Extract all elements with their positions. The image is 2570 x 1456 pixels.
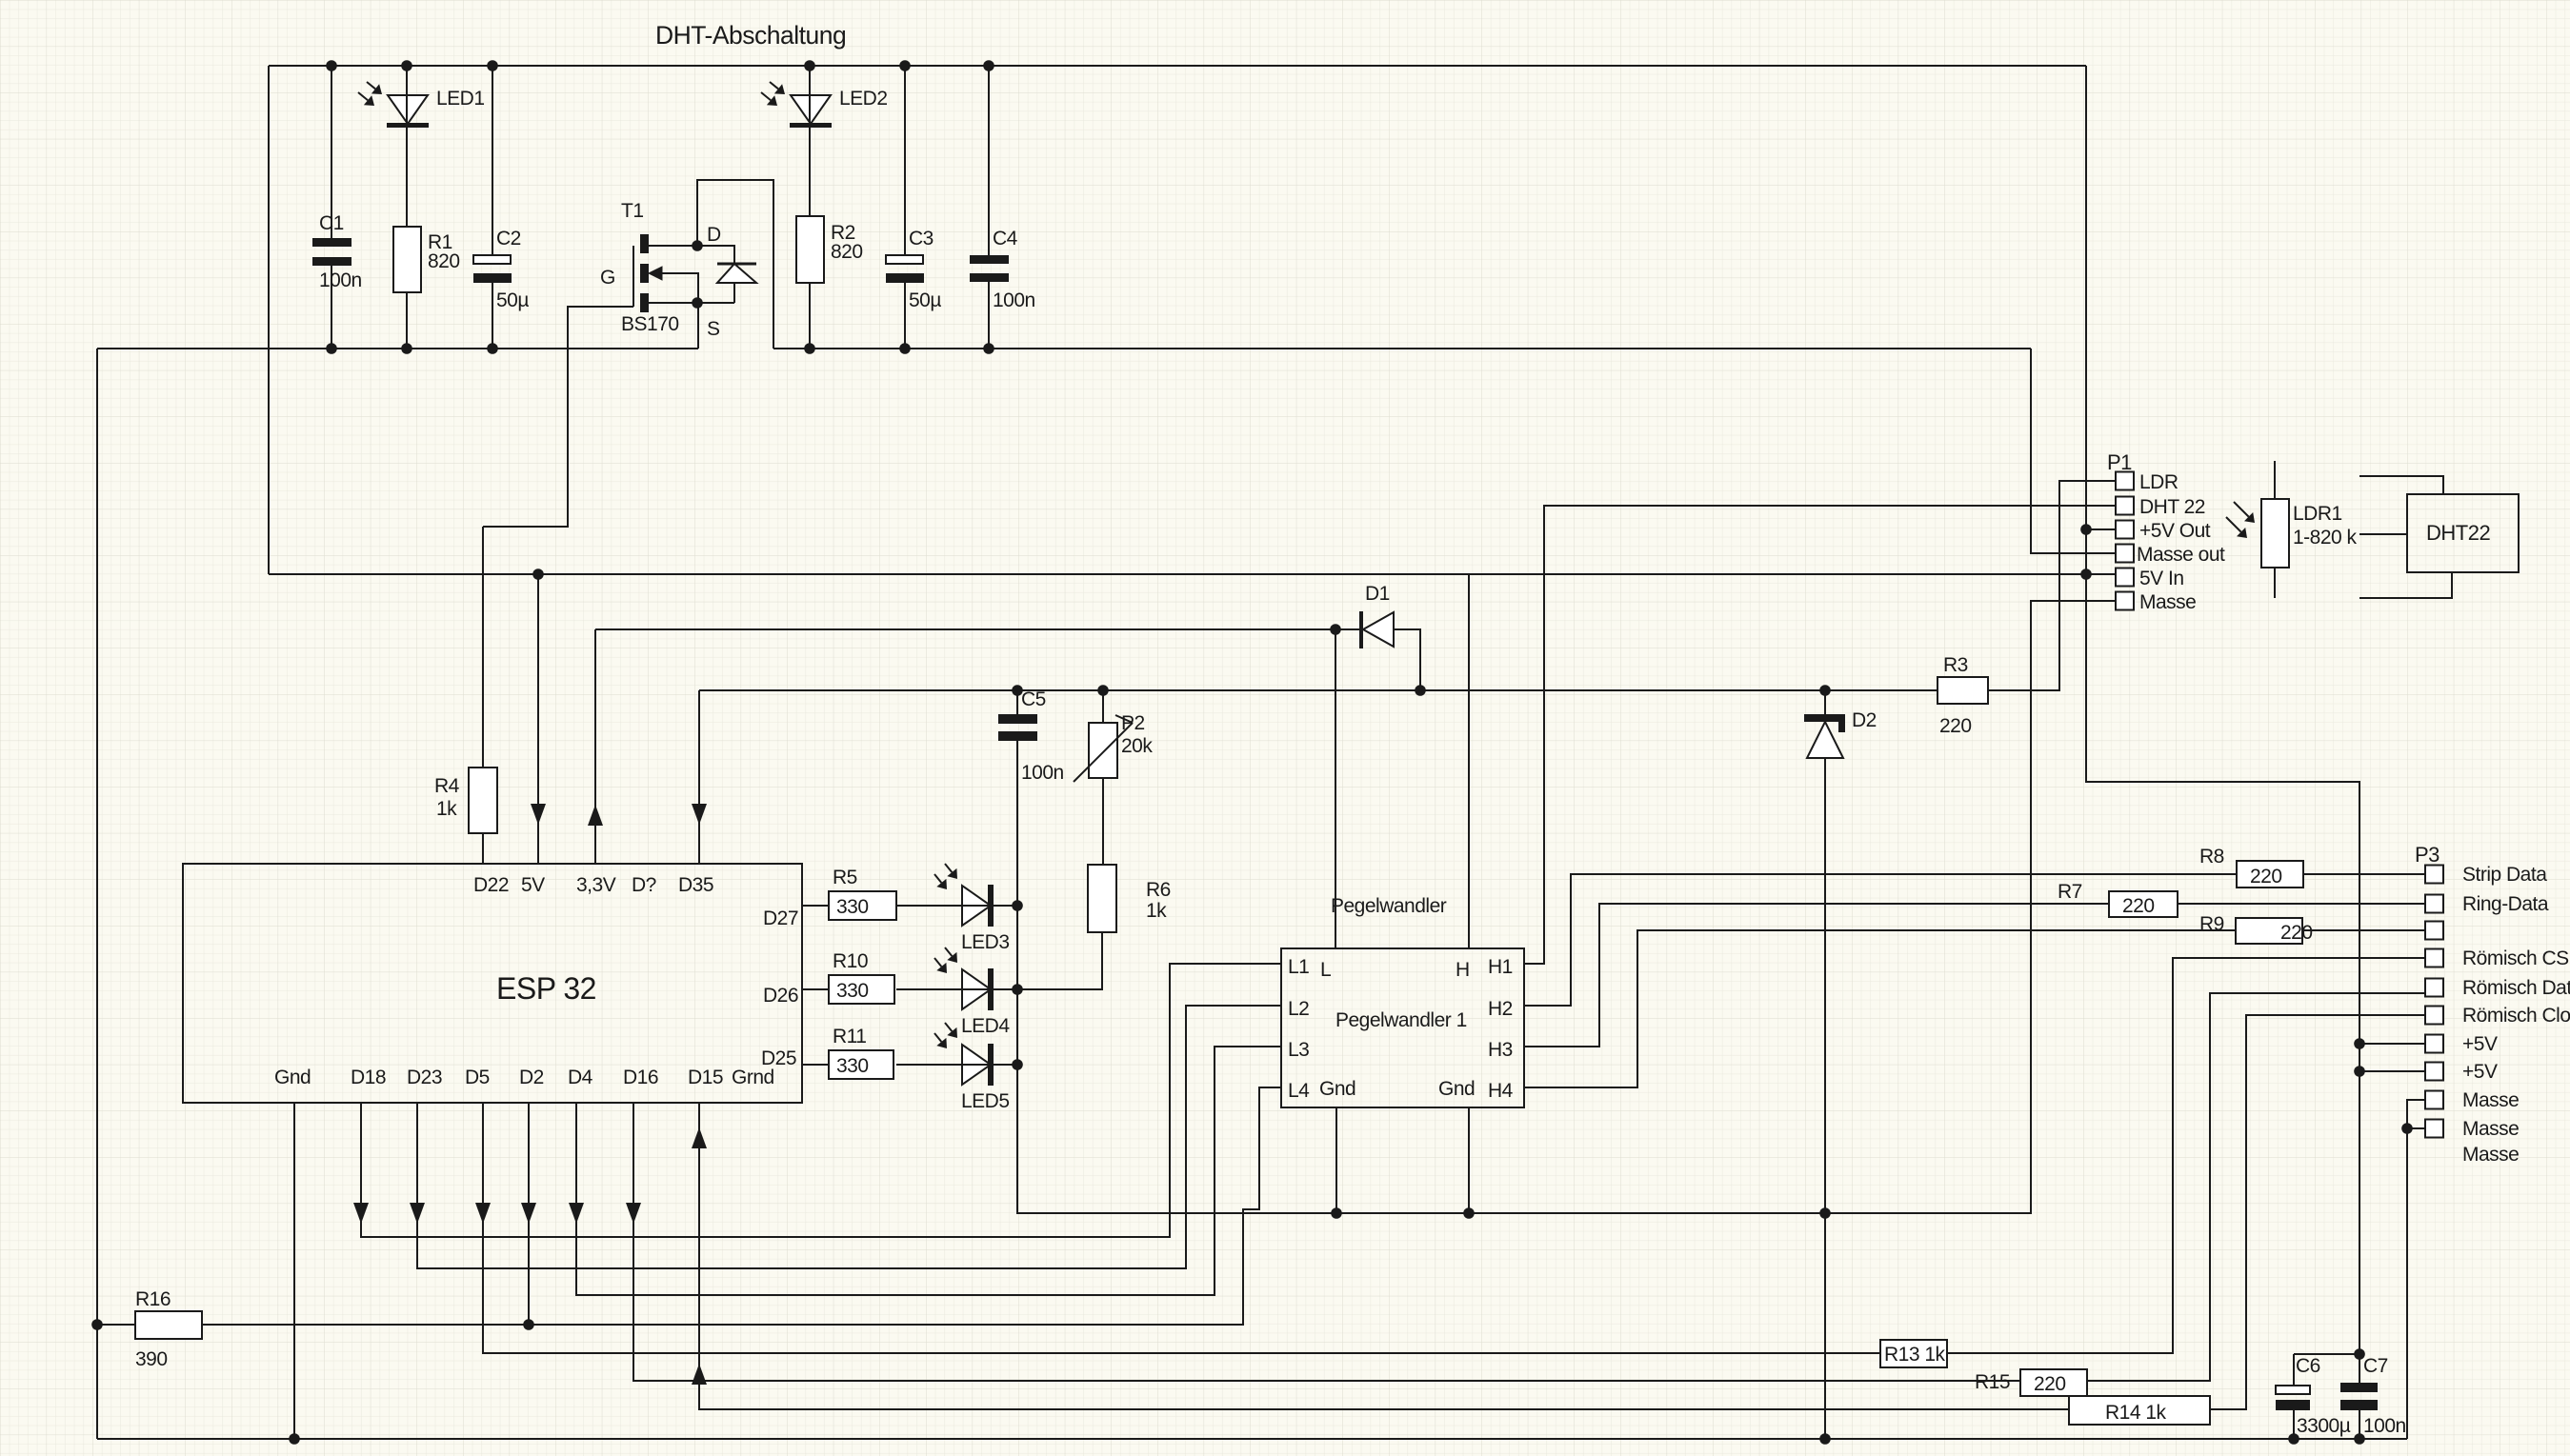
svg-text:Strip Data: Strip Data [2462, 864, 2547, 886]
wire H-top pin to 5V line [1468, 574, 1470, 948]
svg-text:330: 330 [836, 896, 869, 918]
svg-text:LED3: LED3 [961, 931, 1010, 953]
svg-text:100n: 100n [319, 269, 362, 291]
svg-text:Masse: Masse [2462, 1118, 2519, 1140]
capacitor C1 plates [312, 238, 351, 247]
capacitor C1 top lead [331, 66, 332, 238]
svg-text:Masse out: Masse out [2137, 544, 2225, 566]
resistor R3 [1938, 677, 1988, 704]
svg-text:R10: R10 [833, 950, 868, 972]
svg-text:330: 330 [836, 1055, 869, 1077]
svg-text:Masse: Masse [2139, 591, 2196, 613]
svg-text:L3: L3 [1288, 1039, 1309, 1061]
LED4 light arrows [945, 947, 952, 956]
junction C4 top [983, 60, 994, 71]
svg-text:D18: D18 [351, 1067, 386, 1088]
svg-text:D22: D22 [473, 874, 509, 896]
LED2 light arrows [770, 82, 778, 89]
svg-text:R16: R16 [135, 1288, 171, 1310]
svg-text:Römisch CS: Römisch CS [2462, 947, 2569, 969]
wire C6 top branch [2294, 1353, 2359, 1355]
capacitor C3 top lead [904, 66, 906, 255]
arrow into D35 pin [692, 804, 707, 825]
resistor R14 [2069, 1396, 2210, 1425]
LDR1 top stub [2274, 461, 2276, 499]
svg-text:H: H [1456, 959, 1470, 981]
svg-text:H1: H1 [1488, 956, 1513, 978]
svg-text:220: 220 [1939, 715, 1972, 737]
svg-text:+5V Out: +5V Out [2139, 520, 2211, 542]
svg-text:820: 820 [831, 241, 863, 263]
wire LED5 anode-cathode [896, 1064, 1017, 1066]
wire D22 to R4 [482, 527, 484, 768]
ESP32 box U1 [183, 864, 802, 1103]
wire Gnd net: C5 bottom through LEDs to Masse line [1017, 601, 2116, 1213]
capacitor C6 plus plate [2276, 1386, 2310, 1394]
resistor R1 [393, 227, 421, 292]
svg-text:390: 390 [135, 1348, 168, 1370]
wire C7 bottom lead [2359, 1410, 2360, 1439]
wire T1 drain [649, 245, 697, 247]
junction C6 branch [2354, 1348, 2365, 1360]
svg-text:R9: R9 [2199, 913, 2224, 935]
svg-text:20k: 20k [1121, 735, 1153, 757]
DHT22 top lead [2359, 476, 2443, 494]
T1 channel bar bottom [640, 293, 649, 312]
wire 5V top bus [269, 65, 2086, 67]
P3 pin box +5V [2425, 1063, 2443, 1081]
wire top-bus left drop (x=282) [268, 66, 270, 574]
junction T1 drain node [692, 240, 703, 251]
P1 pin box Masse out [2116, 545, 2134, 563]
junction C2 top [487, 60, 498, 71]
resistor R10 [829, 975, 894, 1004]
svg-text:D26: D26 [763, 985, 798, 1007]
wire Pegelwandler L-top feed [1335, 629, 1336, 948]
svg-text:3,3V: 3,3V [576, 874, 616, 896]
P3 pin box Masse [2425, 1120, 2443, 1138]
svg-text:Pegelwandler 1: Pegelwandler 1 [1335, 1009, 1467, 1031]
svg-text:H3: H3 [1488, 1039, 1513, 1061]
svg-text:1k: 1k [436, 798, 457, 820]
T1 channel bar middle [640, 264, 649, 283]
junction +5V Out [2080, 524, 2092, 535]
LED1 triangle [388, 95, 428, 124]
resistor R5 [829, 891, 896, 920]
junction 5V line at ESP [532, 568, 544, 580]
svg-text:50µ: 50µ [909, 289, 941, 311]
wire R16 left lead [97, 1324, 135, 1326]
svg-text:P3: P3 [2415, 843, 2439, 867]
wire DHT22 left lead [2359, 533, 2407, 535]
junction LED2 top [804, 60, 815, 71]
svg-text:D27: D27 [763, 908, 798, 929]
svg-text:+5V: +5V [2462, 1061, 2498, 1083]
T1 body diode top lead [697, 246, 734, 264]
wire Masse pin9 down [2407, 1100, 2425, 1439]
svg-text:DHT 22: DHT 22 [2139, 496, 2205, 518]
wire T1 drain loop [697, 180, 773, 349]
junction D1 cathode branch [1330, 624, 1341, 635]
svg-text:100n: 100n [993, 289, 1035, 311]
wire ESP to R5 [802, 905, 829, 907]
wire +5V pin7 stub [2359, 1043, 2425, 1045]
junction C6 rail [2288, 1433, 2299, 1445]
LDR1 body [2261, 499, 2289, 568]
T1 gate line [632, 246, 634, 307]
svg-text:D5: D5 [465, 1067, 490, 1088]
arrow D15 upper [692, 1127, 707, 1148]
junction D1 anode on line [1415, 685, 1426, 696]
junction LED1 top [401, 60, 412, 71]
svg-text:C6: C6 [2296, 1355, 2320, 1377]
T1 channel bar top [640, 234, 649, 253]
wire C6 bottom lead [2293, 1410, 2295, 1439]
svg-text:C3: C3 [909, 228, 934, 249]
svg-text:D25: D25 [761, 1047, 796, 1069]
capacitor C6 minus plate [2276, 1400, 2310, 1410]
junction R2 bottom [804, 343, 815, 354]
junction P2 top [1097, 685, 1109, 696]
wire H2 to R8 [1524, 874, 2237, 1006]
LED5 triangle [962, 1045, 991, 1085]
resistor R13 [1880, 1340, 1947, 1367]
wire D1 anode [1394, 629, 1420, 690]
wire R7 to Ring-Data [2178, 903, 2425, 905]
wire P2 top lead [1102, 690, 1104, 723]
svg-text:C5: C5 [1021, 688, 1046, 710]
wire H1 to DHT22 pin [1524, 506, 2116, 964]
junction +5V pin7 [2354, 1038, 2365, 1049]
T1 body diode bottom lead [733, 283, 735, 303]
svg-text:50µ: 50µ [496, 289, 529, 311]
resistor R16 [135, 1311, 202, 1339]
junction Masse pin10 [2401, 1123, 2413, 1134]
wire P2 to R6 [1102, 778, 1104, 865]
P3 pin box pin3 [2425, 922, 2443, 940]
arrow D4 [569, 1203, 584, 1224]
svg-text:R7: R7 [2058, 881, 2082, 903]
svg-text:220: 220 [2034, 1373, 2066, 1395]
LED4 cathode bar [988, 968, 994, 1010]
wire H4 to R9 [1524, 930, 2236, 1087]
junction LED5 cathode [1012, 1059, 1023, 1070]
svg-text:820: 820 [428, 250, 460, 272]
LED3 triangle [962, 886, 991, 926]
potentiometer P2 body [1089, 723, 1117, 778]
LDR1 bottom stub [2274, 568, 2276, 598]
svg-text:L2: L2 [1288, 998, 1309, 1020]
svg-text:R5: R5 [833, 867, 857, 888]
junction C3 bottom [899, 343, 911, 354]
resistor R11 [829, 1050, 893, 1079]
svg-text:BS170: BS170 [621, 313, 679, 335]
capacitor C1 bottom lead [331, 266, 332, 349]
potentiometer P2 wiper arrow [1074, 723, 1133, 782]
capacitor C2 plus plate [473, 255, 511, 264]
wire ESP Gnd to rail [293, 1103, 295, 1439]
wire left ground drop (x=102) [96, 349, 98, 1439]
svg-text:+5V: +5V [2462, 1033, 2498, 1055]
svg-text:Pegelwandler: Pegelwandler [1331, 895, 1447, 917]
DHT22 bottom lead [2359, 572, 2452, 598]
svg-text:D16: D16 [623, 1067, 658, 1088]
svg-text:Gnd: Gnd [1319, 1078, 1355, 1100]
capacitor C4 plates [970, 255, 1009, 264]
capacitor C4 bottom lead [988, 282, 990, 349]
LED3 cathode bar [988, 885, 994, 927]
wire R2 bottom [809, 283, 811, 349]
wire R3 right to LDR pin [1988, 481, 2116, 690]
svg-text:LDR: LDR [2139, 471, 2178, 493]
arrow into 5V pin [531, 804, 546, 825]
wire 5V line (y=603) [269, 573, 2116, 575]
arrow out of 3,3V pin [588, 805, 603, 826]
svg-text:R13 1k: R13 1k [1884, 1344, 1946, 1366]
svg-text:1k: 1k [1146, 900, 1167, 922]
svg-text:220: 220 [2280, 922, 2313, 944]
LED4 triangle [962, 969, 991, 1009]
capacitor C7 plates [2340, 1383, 2378, 1392]
wire R1 bottom [406, 292, 408, 349]
svg-text:Gnd: Gnd [1438, 1078, 1475, 1100]
svg-text:H4: H4 [1488, 1080, 1514, 1102]
svg-text:D: D [707, 224, 721, 246]
svg-text:C2: C2 [496, 228, 521, 249]
svg-text:L1: L1 [1288, 956, 1309, 978]
wire ESP D35 pin [698, 690, 700, 864]
resistor R6 [1088, 865, 1116, 932]
svg-text:D4: D4 [568, 1067, 593, 1088]
LED3 light arrows [945, 864, 952, 872]
junction +5V pin8 [2354, 1066, 2365, 1077]
svg-text:220: 220 [2250, 866, 2282, 888]
wire D15 to R14 [699, 1103, 2069, 1409]
svg-text:C1: C1 [319, 212, 344, 234]
capacitor C3 minus plate [886, 273, 924, 283]
wire T1 source to rail corner [697, 303, 699, 349]
arrow D23 [410, 1203, 425, 1224]
wire R9 to P3 pin3 [2302, 929, 2425, 931]
svg-text:L: L [1320, 959, 1331, 981]
T1 body diode cathode bar [717, 263, 756, 266]
wire D23 to L2 [417, 1006, 1281, 1268]
svg-text:100n: 100n [2363, 1415, 2406, 1437]
wire LED2 anode-cathode [809, 66, 811, 216]
LED2 triangle [791, 95, 831, 124]
junction D2 Gnd line [1819, 1207, 1831, 1219]
P3 pin box Ring-Data [2425, 895, 2443, 913]
wire D4 to L3 [576, 1047, 1281, 1295]
LED2 cathode bar [790, 123, 832, 128]
svg-text:D15: D15 [688, 1067, 723, 1088]
wire D5 to R13 [483, 1103, 1880, 1353]
wire D18 to L1 [361, 964, 1281, 1237]
junction C2 bottom [487, 343, 498, 354]
svg-text:R3: R3 [1943, 654, 1968, 676]
svg-text:DHT-Abschaltung: DHT-Abschaltung [655, 21, 846, 50]
wire R4 to ESP D22 [482, 833, 484, 864]
wire switched rail right segment (y=366) [773, 348, 2031, 349]
LDR1 light arrows [2234, 502, 2249, 517]
svg-text:Römisch Clock: Römisch Clock [2462, 1005, 2570, 1027]
wire ground rail left segment (y=366) [97, 348, 698, 349]
resistor R2 [796, 216, 824, 283]
wire LED1 anode-cathode [406, 66, 408, 227]
resistor R9 [2236, 918, 2302, 944]
wire D35 line (y=725) [699, 689, 1938, 691]
capacitor C3 plus plate [886, 255, 923, 264]
T1 body diode triangle [717, 264, 756, 283]
capacitor C3 bottom lead [904, 283, 906, 349]
arrow D15 lower [692, 1364, 707, 1385]
svg-text:D2: D2 [519, 1067, 544, 1088]
P1 pin box DHT 22 [2116, 497, 2134, 515]
wire D2 bottom to rail [1824, 758, 1826, 1439]
P1 pin box +5V Out [2116, 521, 2134, 539]
junction C5 top [1012, 685, 1023, 696]
diode D2 cathode bar [1804, 714, 1845, 722]
wire T1 source [649, 302, 734, 304]
capacitor C5 plates [998, 714, 1037, 724]
wire LED4 anode-cathode [896, 988, 1017, 990]
diode D1 cathode bar [1359, 611, 1363, 648]
wire ESP 5V pin [537, 574, 539, 864]
junction R16 left [91, 1319, 103, 1330]
junction Gnd pin right [1463, 1207, 1475, 1219]
wire bottom Masse rail (y=1511) [97, 1438, 2407, 1440]
junction Gnd pin left [1331, 1207, 1342, 1219]
P1 pin box LDR [2116, 472, 2134, 490]
svg-text:P1: P1 [2107, 450, 2132, 474]
wire R14 to Roemisch Clock [2210, 1015, 2425, 1409]
svg-text:C7: C7 [2363, 1355, 2388, 1377]
svg-text:D23: D23 [407, 1067, 442, 1088]
junction C4 bottom [983, 343, 994, 354]
wire T1 gate run [483, 307, 633, 527]
svg-text:D1: D1 [1365, 583, 1390, 605]
svg-text:Römisch Data: Römisch Data [2462, 977, 2570, 999]
svg-text:Masse: Masse [2462, 1089, 2519, 1111]
svg-text:Ring-Data: Ring-Data [2462, 893, 2549, 915]
svg-text:100n: 100n [1021, 762, 1064, 784]
wire Masse pin10 stub [2407, 1127, 2425, 1129]
svg-text:R15: R15 [1975, 1371, 2010, 1393]
wire R16 to L4 [202, 1087, 1281, 1325]
P3 pin box Strip Data [2425, 866, 2443, 884]
wire P1 +5V Out stub [2086, 529, 2116, 530]
svg-text:LDR1: LDR1 [2293, 503, 2342, 525]
svg-text:R8: R8 [2199, 846, 2224, 868]
wire R15 to Roemisch Data [2087, 993, 2425, 1381]
svg-text:H2: H2 [1488, 998, 1513, 1020]
wire R6 bottom to LED4 line [1017, 932, 1102, 989]
arrow D16 [626, 1203, 641, 1224]
svg-text:LED1: LED1 [436, 88, 485, 110]
LED1 cathode bar [387, 123, 429, 128]
LED5 cathode bar [988, 1044, 994, 1086]
svg-text:5V: 5V [521, 874, 545, 896]
svg-text:Masse: Masse [2462, 1144, 2519, 1166]
svg-text:C4: C4 [993, 228, 1018, 249]
junction LED4 cathode [1012, 984, 1023, 995]
svg-text:ESP 32: ESP 32 [496, 971, 596, 1006]
DHT22 box [2407, 494, 2519, 572]
wire Gnd pin right [1468, 1107, 1470, 1213]
svg-text:LED2: LED2 [839, 88, 888, 110]
wire R13 to Roemisch CS [1947, 958, 2425, 1353]
svg-text:LED5: LED5 [961, 1090, 1010, 1112]
junction LED3 cathode [1012, 900, 1023, 911]
wire Gnd pin left [1335, 1107, 1337, 1213]
svg-text:D35: D35 [678, 874, 713, 896]
resistor R8 [2237, 861, 2303, 888]
wire ESP to R10 [802, 988, 829, 990]
junction D2 top [1819, 685, 1831, 696]
wire ESP 3,3V pin [594, 629, 596, 864]
LED1 light arrows [367, 82, 375, 89]
arrow D18 [353, 1203, 369, 1224]
wire 3,3V line (y=661) [595, 628, 1361, 630]
wire 5V feed: top bus to +5V pins and C7 [2086, 66, 2359, 1383]
resistor R7 [2109, 891, 2178, 917]
capacitor C4 top lead [988, 66, 990, 255]
svg-text:330: 330 [836, 980, 869, 1002]
LED5 light arrows [945, 1023, 952, 1031]
wire D2 top lead [1824, 690, 1826, 716]
junction D2 on R16 line [523, 1319, 534, 1330]
P3 pin box Römisch Clock [2425, 1007, 2443, 1025]
T1 body arrow [649, 267, 662, 280]
Pegelwandler box [1281, 948, 1524, 1107]
svg-text:D2: D2 [1852, 709, 1877, 731]
diode D1 triangle [1363, 612, 1394, 647]
P3 pin box Masse [2425, 1091, 2443, 1109]
arrow D2 [521, 1203, 536, 1224]
junction T1 source node [692, 297, 703, 309]
junction 5V In at P1 [2080, 568, 2092, 580]
junction C7 rail [2354, 1433, 2365, 1445]
svg-text:G: G [600, 267, 615, 289]
capacitor C2 minus plate [473, 273, 512, 283]
wire D16 to R15 [633, 1103, 2020, 1381]
capacitor C2 top lead [492, 66, 493, 255]
svg-text:Gnd: Gnd [274, 1067, 311, 1088]
P1 pin box Masse [2116, 592, 2134, 610]
svg-text:Grnd: Grnd [732, 1067, 774, 1088]
wire D2 down [528, 1103, 530, 1325]
arrow D5 [475, 1203, 491, 1224]
svg-text:R6: R6 [1146, 879, 1171, 901]
svg-text:S: S [707, 318, 720, 340]
svg-text:P2: P2 [1121, 712, 1145, 734]
wire C6 top lead [2293, 1354, 2295, 1386]
junction D2 rail [1819, 1433, 1831, 1445]
svg-text:T1: T1 [621, 200, 644, 222]
svg-text:L4: L4 [1288, 1080, 1310, 1102]
svg-text:1-820 k: 1-820 k [2293, 527, 2358, 548]
wire P1 Masse out stub [2031, 349, 2116, 553]
wire +5V pin8 stub [2359, 1070, 2425, 1072]
P3 pin box Römisch Data [2425, 979, 2443, 997]
junction C1 bottom [326, 343, 337, 354]
svg-text:R14 1k: R14 1k [2105, 1402, 2167, 1424]
junction R1 bottom [401, 343, 412, 354]
P3 pin box +5V [2425, 1035, 2443, 1053]
P1 pin box 5V In [2116, 568, 2134, 587]
capacitor C2 bottom lead [492, 283, 493, 349]
junction C1 top [326, 60, 337, 71]
